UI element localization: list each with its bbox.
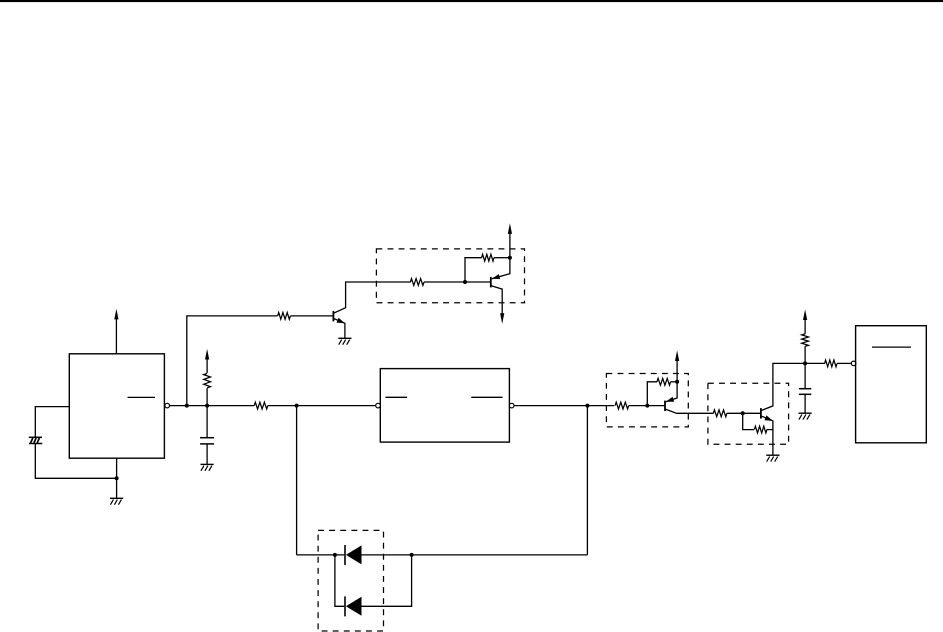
wire C2 to ground (804, 394, 806, 413)
VCC arrow node E (803, 309, 807, 320)
Q2 collector with output arrow (491, 286, 505, 324)
VCC arrow node B (205, 349, 209, 360)
junction dot node A (185, 404, 189, 408)
wire below chassis symbol (35, 444, 116, 479)
resistor R10 (802, 334, 809, 346)
Q4 collector (761, 363, 805, 410)
U2 label line right (471, 396, 502, 398)
junction dot node D (585, 404, 589, 408)
resistor R6 (615, 402, 629, 409)
Q3 collector (665, 409, 713, 413)
wire U1 bottom to ground (116, 458, 118, 498)
U1 label line (128, 396, 156, 398)
Q3 emitter (666, 382, 677, 402)
wire node D down (586, 406, 588, 555)
Q1 emitter (333, 318, 345, 338)
junction dot diode right node (410, 553, 414, 557)
wire node B down to C1 (206, 406, 208, 438)
transistor Q4 base bar (760, 408, 762, 419)
wire node E up to R10 (804, 346, 806, 363)
block U3 (right unit) (856, 326, 927, 443)
VCC arrow at U1 top (114, 309, 118, 354)
block U2 (center unit) (380, 369, 509, 443)
dashed group box DB4 (318, 530, 383, 631)
junction dot node B (205, 404, 209, 408)
capacitor C2 (799, 389, 811, 395)
wire Q3 VCC node up (676, 361, 678, 382)
junction dot Q2 VCC node (508, 256, 512, 260)
ground C2 (799, 413, 812, 419)
block U1 (left unit) (69, 354, 164, 458)
VCC arrow DB2 (675, 350, 679, 361)
dashed group box DB1 (376, 249, 524, 303)
U3 label line (872, 346, 911, 348)
wire node C down (296, 406, 298, 555)
wire bottom rail left (297, 554, 345, 556)
wire R2 to Q1 base (290, 315, 332, 317)
dashed group box DB3 (708, 383, 789, 444)
wire R9 to Q4 emitter (767, 429, 773, 431)
wire R1 to U2 (268, 405, 376, 407)
wire R8 to Q4 base (727, 412, 760, 414)
VCC arrow DB1 (508, 223, 512, 234)
wire Q3 base node up (647, 382, 657, 406)
wire R5 to VCC node (494, 257, 510, 259)
wire U1 left feedback (35, 407, 69, 437)
dashed group box DB2 (606, 374, 688, 427)
diode D1 (345, 545, 362, 565)
page header rule (0, 0, 943, 2)
ground C1 (201, 464, 214, 470)
wire diode branch right (362, 555, 412, 606)
Q2 emitter (492, 258, 510, 279)
resistor R4 (410, 279, 424, 286)
wire R7 to Q3 VCC node (671, 381, 678, 383)
resistor R3 (204, 373, 211, 388)
Q1 collector (333, 282, 410, 313)
junction dot node E (803, 361, 807, 365)
resistor R8 (713, 410, 727, 417)
wire R6 to Q3 base (629, 405, 664, 407)
wire R10 to VCC arrow (804, 320, 806, 334)
diode D2 (345, 596, 362, 616)
wire C1 to ground (206, 444, 208, 464)
wire node B up to R3 (206, 388, 208, 405)
wire D1 to bottom rail right (362, 554, 588, 556)
resistor R11 (825, 360, 837, 367)
junction dot diode left node (333, 553, 337, 557)
wire R3 to VCC arrow (206, 359, 208, 373)
port circle U2 input (376, 403, 381, 408)
junction dot Q4 base node (741, 411, 745, 415)
ground Q1 emitter (338, 338, 351, 344)
chassis frame symbol (29, 437, 43, 443)
ground Q4 emitter (766, 455, 779, 461)
port circle U2 output (509, 403, 514, 408)
transistor Q3 base bar (664, 401, 666, 411)
wire U2 output to R6 (514, 405, 614, 407)
junction dot Q2 base node (463, 280, 467, 284)
capacitor C1 (200, 438, 214, 444)
resistor R2 (278, 313, 291, 320)
ground U1 (110, 498, 123, 504)
junction dot U1 ground net (115, 476, 119, 480)
wire R11 to U3 (837, 362, 851, 364)
U2 label line left (385, 396, 407, 398)
wire Q4 feedback (743, 413, 754, 429)
wire node E down to C2 (804, 363, 806, 388)
resistor R7 (657, 378, 671, 385)
resistor R9 (754, 426, 767, 433)
wire node E to R11 (805, 362, 825, 364)
wire R4 to Q2 base (424, 281, 490, 283)
junction dot node C (295, 404, 299, 408)
port circle U3 input (851, 361, 856, 366)
junction dot Q3 VCC node (675, 380, 679, 384)
resistor R1 (254, 402, 268, 409)
port circle U1 output (165, 403, 170, 408)
Q4 emitter (761, 415, 773, 455)
wire node A up to Q1 base (187, 316, 278, 406)
junction dot Q3 base node (645, 404, 649, 408)
wire Q2 base node up (465, 258, 482, 282)
wire diode branch left (335, 555, 344, 606)
wire VCC node up (509, 234, 511, 258)
resistor R5 (482, 254, 494, 261)
wire U1 output (170, 405, 255, 407)
transistor Q1 base bar (332, 311, 334, 322)
transistor Q2 base bar (490, 277, 492, 288)
